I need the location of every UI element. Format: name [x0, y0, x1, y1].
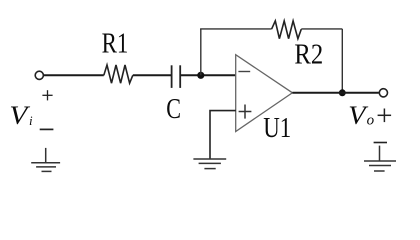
node B junction dot (output node)	[339, 89, 346, 96]
label U1	[263, 112, 291, 144]
label Vo plus polarity	[378, 109, 392, 123]
wire to non-inverting input	[210, 111, 236, 159]
label C	[166, 92, 181, 125]
svg-text:U1: U1	[263, 112, 291, 144]
output wire	[292, 92, 378, 94]
label Vi	[9, 102, 30, 131]
feedback wire down to output node	[341, 29, 343, 93]
op-amp inverting input marker	[238, 71, 250, 73]
svg-text:R2: R2	[294, 38, 323, 70]
op-amp non-inverting input marker	[239, 105, 252, 119]
wire R1 to C	[133, 74, 171, 76]
resistor R2	[272, 21, 302, 39]
resistor R1	[104, 65, 133, 83]
output terminal Vo	[379, 89, 387, 97]
svg-text:C: C	[166, 92, 181, 125]
capacitor C right plate	[179, 65, 181, 88]
label Vi minus polarity	[40, 128, 54, 130]
wire C to op-amp inverting input	[181, 74, 236, 76]
feedback wire top left segment	[200, 28, 272, 30]
input terminal Vi	[35, 71, 43, 79]
wire input to R1	[44, 74, 104, 76]
svg-text:i: i	[29, 113, 33, 128]
feedback wire top right segment	[301, 28, 342, 30]
label Vi plus polarity	[42, 90, 52, 100]
ground (input side)	[31, 148, 60, 172]
ground (output side)	[364, 146, 396, 171]
label Vo minus polarity	[374, 142, 387, 144]
op-amp U1 triangle	[236, 55, 293, 132]
label Vo	[348, 101, 369, 130]
feedback wire up from node A	[200, 29, 202, 75]
svg-text:R1: R1	[102, 27, 129, 59]
ground (op-amp non-inverting input)	[193, 159, 226, 169]
svg-text:o: o	[367, 112, 375, 128]
node A junction dot	[197, 72, 204, 79]
svg-text:V: V	[9, 102, 30, 131]
label R2	[294, 38, 323, 70]
capacitor C left plate	[171, 65, 173, 88]
label R1	[102, 27, 129, 59]
